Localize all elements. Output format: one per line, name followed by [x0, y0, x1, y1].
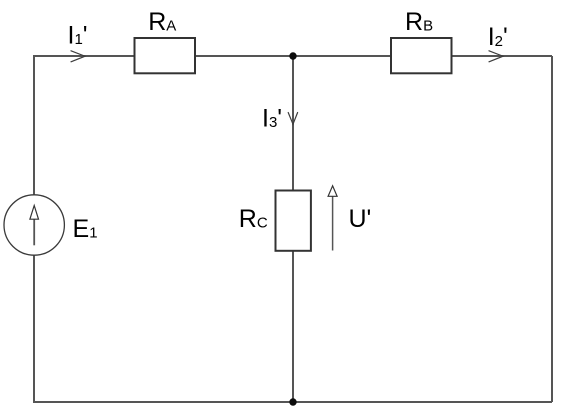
- svg-text:U': U': [349, 205, 372, 233]
